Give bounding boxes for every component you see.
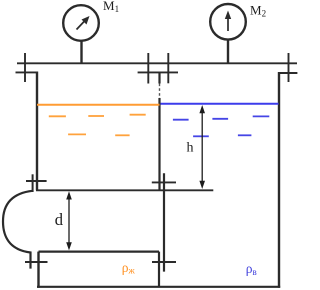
svg-text:h: h: [187, 141, 194, 156]
manometer M2 needle: [225, 11, 231, 32]
pipe upper stub beside left wall: [32, 174, 34, 192]
left tank wall: [36, 72, 38, 191]
lower-left vessel left wall: [37, 252, 39, 288]
top pipe upper line: [17, 62, 297, 64]
manometer M2 stub: [227, 39, 229, 63]
orange wave dash 5: [115, 134, 129, 136]
middle divider upper solid: [158, 72, 160, 84]
semicircular pipe bend: [3, 191, 33, 269]
blue wave dash 1: [173, 119, 189, 121]
blue wave dash 4: [193, 135, 209, 137]
middle connecting pipe: [163, 173, 165, 271]
orange liquid surface left tank: [37, 104, 160, 106]
tank bottom line: [37, 286, 280, 288]
flange tick on upper stub: [26, 180, 47, 182]
orange wave dash 1: [49, 115, 66, 117]
channel top line: [36, 189, 213, 191]
flange tick top-left: [24, 53, 26, 82]
svg-text:d: d: [55, 210, 64, 229]
top pipe lower line middle segment: [138, 71, 178, 73]
h dimension arrow: [199, 105, 205, 189]
manometer M2 dial: [210, 4, 246, 40]
blue liquid surface right tank: [161, 103, 279, 105]
middle divider dashed part: [159, 84, 161, 99]
lower-left vessel right wall: [158, 252, 160, 287]
flange tick mid-left: [147, 53, 149, 84]
manometer M1 stub: [80, 40, 82, 63]
flange tick on middle pipe upper: [152, 181, 176, 183]
d dimension arrow: [66, 191, 72, 250]
lower-left vessel top line: [39, 251, 160, 253]
blue wave dash 2: [212, 118, 228, 120]
flange tick top-right: [288, 53, 290, 82]
blue wave dash 3: [253, 115, 270, 117]
flange tick mid-right: [167, 53, 169, 83]
middle divider lower solid: [158, 98, 160, 190]
blue wave dash 5: [238, 134, 252, 136]
manometer M1 dial: [63, 5, 99, 41]
flange tick on lower stub: [25, 261, 48, 263]
right tank wall: [278, 72, 280, 288]
orange wave dash 4: [68, 133, 86, 135]
manometer M1 needle: [77, 16, 90, 30]
top pipe lower line right segment: [279, 72, 297, 74]
flange tick on middle pipe lower: [152, 261, 176, 263]
orange wave dash 3: [130, 114, 146, 116]
top pipe lower line left segment: [16, 71, 39, 73]
orange wave dash 2: [88, 115, 104, 117]
